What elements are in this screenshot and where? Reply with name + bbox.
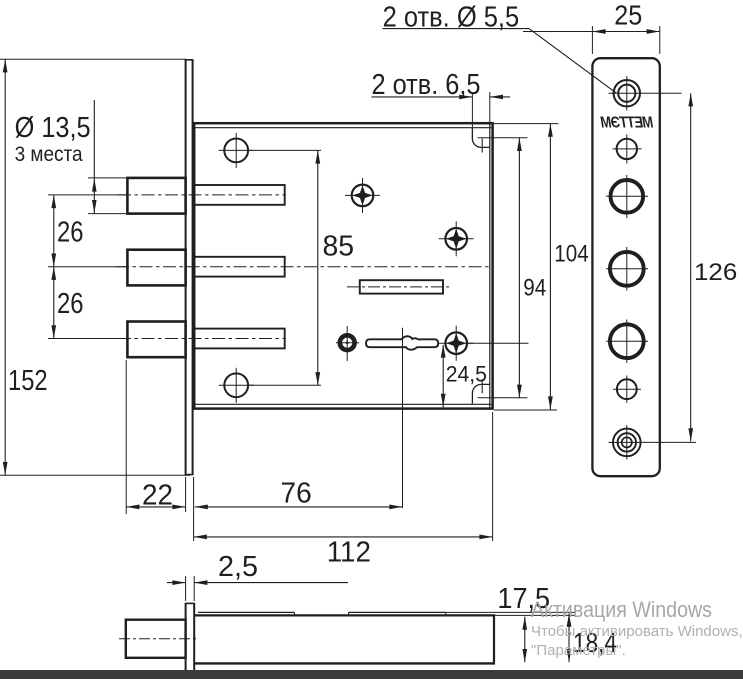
wire : extension from hole H1 to 85 dimension bbox=[247, 149, 321, 151]
svg-text:112: 112 bbox=[327, 537, 371, 569]
wire : lock body horizontal centre line (dash-dot) bbox=[116, 266, 489, 268]
hole P2 : stud hole (bold cross) right upper bbox=[445, 228, 467, 250]
svg-text:104: 104 bbox=[554, 241, 588, 268]
svg-text:25: 25 bbox=[614, 0, 642, 31]
node body-side : lock case in bottom view bbox=[194, 614, 494, 616]
node bolt-shaft-2 : middle bolt shaft inside case bbox=[194, 257, 285, 277]
node bolt-head-1 : top deadbolt head bbox=[127, 178, 185, 214]
hole P3 : stud hole (bold cross) right lower bbox=[445, 332, 467, 354]
wire : 94-dim top reference line through slot bbox=[478, 137, 528, 139]
wire : inner right edge line bbox=[489, 123, 491, 408]
node bolt-side : bolt in bottom view bbox=[126, 620, 186, 658]
svg-text:2,5: 2,5 bbox=[218, 551, 258, 583]
dimension 126 : plate hole spacing bbox=[690, 93, 692, 441]
wire : inner bottom edge line bbox=[194, 403, 491, 405]
wire : bolt centre extension lines for 26 dims bbox=[48, 194, 127, 196]
svg-text:"Параметры".: "Параметры". bbox=[531, 642, 626, 659]
node faceplate-bottom : plate in bottom view bbox=[185, 603, 187, 670]
svg-text:94: 94 bbox=[523, 274, 546, 301]
svg-text:26: 26 bbox=[57, 288, 84, 320]
wire : bolt 1 centre line (dash-dot) bbox=[118, 194, 286, 196]
wire : body right edge extension down bbox=[492, 412, 494, 541]
wire : slot extension lines bbox=[471, 94, 473, 140]
wire : inner top edge line bbox=[194, 127, 491, 129]
wire : slot centre line (dash-dot) bbox=[347, 286, 449, 288]
wire : keyhole vertical centre line bbox=[402, 328, 404, 368]
svg-text:26: 26 bbox=[57, 216, 84, 248]
wire : plate extension lines up to 2.5 dim bbox=[185, 576, 187, 601]
wire : extension line from faceplate top to 152 dimension bbox=[0, 58, 186, 60]
svg-text:МЕТТЭМ: МЕТТЭМ bbox=[600, 115, 654, 132]
hole P1 : stud hole (bold cross) upper middle bbox=[352, 185, 374, 207]
dimension 26 upper : bolt spacing bbox=[53, 195, 55, 339]
node rail-2 : thin cover strip segment 2 bbox=[349, 611, 446, 613]
hole F6 : small hole lower bbox=[617, 379, 637, 399]
hole F1 : countersunk screw hole top bbox=[614, 80, 640, 106]
node taskbar : dark bottom bar bbox=[0, 670, 743, 679]
dimension 22 : bolt throw bbox=[125, 360, 127, 514]
svg-text:126: 126 bbox=[694, 259, 737, 286]
hole F5 : large bolt hole 3 bbox=[610, 324, 644, 358]
wire : 94-dim bottom reference line through slot bbox=[478, 397, 528, 399]
dimension 24.5 : keyhole to bottom bbox=[442, 345, 444, 407]
dimension 104 : body height bbox=[494, 123, 559, 125]
node bolt-head-3 : bottom deadbolt head bbox=[127, 322, 185, 358]
dimension 152 : overall height bbox=[4, 59, 6, 475]
node bolt-head-2 : middle deadbolt head bbox=[127, 250, 185, 286]
wire : faceplate extension lines down to 22/112 dims bbox=[185, 477, 187, 512]
node faceplate-front : lock faceplate edge view (vertical strip) bbox=[185, 59, 187, 475]
hole F4 : large bolt hole 2 bbox=[610, 252, 644, 286]
wire : keyhole centre extension down to 76 dimension bbox=[402, 368, 404, 508]
svg-text:Чтобы активировать Windows, пе: Чтобы активировать Windows, перейдите в … bbox=[531, 623, 743, 640]
node bolt-shaft-1 : top bolt shaft inside case bbox=[194, 185, 285, 205]
wire : extension from P3 to 24.5 dimension bbox=[467, 342, 529, 344]
node keyhole : key-shaped slot bbox=[366, 336, 438, 349]
node screw-slot-top : open slot at top right corner bbox=[472, 128, 489, 147]
dimension 76 : keyhole position bbox=[195, 506, 403, 508]
dimension 94 : screw slot spacing bbox=[518, 138, 520, 398]
hole F7 : countersunk screw hole bottom bbox=[613, 429, 641, 457]
wire : bolt 3 centre line (dash-dot) bbox=[118, 338, 286, 340]
wire : bolt centre line bottom view bbox=[119, 638, 198, 640]
svg-text:Активация Windows: Активация Windows bbox=[531, 597, 712, 622]
svg-text:22: 22 bbox=[142, 479, 173, 511]
logo METTEM : mirrored brand stamp bbox=[600, 115, 654, 132]
svg-text:76: 76 bbox=[281, 477, 312, 509]
hole F3 : large bolt hole 1 bbox=[611, 180, 644, 213]
node bolt-shaft-3 : bottom bolt shaft inside case bbox=[194, 329, 285, 349]
node faceplate : front plate outline bbox=[592, 58, 659, 476]
node rail-1 : thin cover strip segment 1 bbox=[198, 611, 295, 613]
svg-text:3 места: 3 места bbox=[15, 142, 83, 166]
svg-text:24,5: 24,5 bbox=[446, 362, 487, 387]
hole H2 : plain hole bottom-left with centre mark bbox=[224, 373, 248, 397]
hole F2 : small hole bbox=[617, 139, 637, 159]
node lock-body : main case outline bbox=[194, 123, 492, 408]
dimension 85 : hole spacing vertical bbox=[317, 150, 319, 385]
hole ring : bold small ring left of keyhole bbox=[340, 335, 355, 350]
svg-text:Ø 13,5: Ø 13,5 bbox=[15, 112, 91, 144]
node screw-slot-bottom : open slot at bottom right corner bbox=[472, 384, 489, 403]
wire : extension line from faceplate bottom to 152 dimension bbox=[0, 474, 190, 476]
svg-text:152: 152 bbox=[8, 365, 48, 397]
wire : leader to right plate top hole bbox=[529, 29, 617, 94]
capacitor-slot : central rectangular slot bbox=[360, 280, 443, 293]
hole H1 : plain hole top-left with centre mark bbox=[224, 139, 248, 163]
svg-text:85: 85 bbox=[323, 231, 355, 263]
wire : extension from hole H2 to 85 dimension bbox=[247, 384, 321, 386]
